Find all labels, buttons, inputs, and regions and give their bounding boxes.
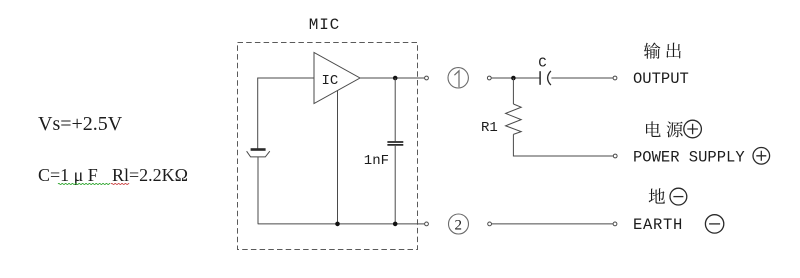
minus symbol after EARTH xyxy=(705,215,723,233)
label CJK di (earth) xyxy=(649,188,665,203)
label CJK chu (output) xyxy=(666,43,681,59)
wire R1 bottom to power supply terminal xyxy=(513,134,613,156)
capacitor 1nF plates xyxy=(387,142,403,145)
svg-text:R1: R1 xyxy=(481,120,498,136)
terminal pin2 outer xyxy=(488,222,492,226)
svg-text:EARTH: EARTH xyxy=(633,216,683,234)
junction output / 1nF xyxy=(393,76,398,81)
microphone element top plate xyxy=(251,148,266,151)
svg-text:1nF: 1nF xyxy=(364,153,389,169)
svg-text:Rl=2.2KΩ: Rl=2.2KΩ xyxy=(112,165,188,185)
microphone element cup plate xyxy=(247,151,270,157)
terminal earth xyxy=(613,222,617,226)
capacitor C curved plate xyxy=(548,71,551,85)
wire pin2 to earth terminal xyxy=(492,223,613,225)
wire left drop to mic element xyxy=(257,78,259,149)
svg-text:2: 2 xyxy=(455,218,463,234)
minus symbol after di xyxy=(670,188,687,205)
capacitor C left plate xyxy=(539,71,541,85)
svg-text:C=1 μ F: C=1 μ F xyxy=(38,165,98,185)
wire 1nF top lead xyxy=(394,78,396,141)
terminal output xyxy=(613,76,617,80)
terminal pin2 inner xyxy=(425,222,429,226)
svg-text:Vs=+2.5V: Vs=+2.5V xyxy=(38,113,123,135)
wire C to output terminal xyxy=(551,77,613,79)
junction R1 tap xyxy=(511,76,516,81)
resistor R1 xyxy=(506,104,522,134)
wire R1 top lead xyxy=(512,78,514,104)
wire op-amp bottom tap xyxy=(337,91,339,224)
wire pin1 to capacitor C xyxy=(491,77,540,79)
wire mic element to bottom rail xyxy=(257,157,259,224)
wire stub pin1 xyxy=(418,77,425,79)
wire 1nF bottom lead xyxy=(394,146,396,224)
wire stub pin2 xyxy=(418,223,425,225)
label CJK yuan (power) xyxy=(667,121,683,137)
plus symbol after POWER SUPPLY xyxy=(753,148,770,165)
svg-text:OUTPUT: OUTPUT xyxy=(633,70,689,88)
annotation C=1uF Rl=2.2Kohm xyxy=(38,165,188,185)
wire op-amp input xyxy=(258,77,314,79)
MIC module dashed box xyxy=(238,43,418,250)
terminal label 1 (circled) xyxy=(448,68,468,88)
op-amp IC xyxy=(314,53,360,104)
svg-text:MIC: MIC xyxy=(309,16,340,34)
svg-text:C: C xyxy=(538,55,546,71)
terminal pin1 inner xyxy=(425,76,429,80)
svg-text:IC: IC xyxy=(322,73,339,89)
plus symbol after dianyuan xyxy=(684,120,702,138)
junction 1nF bottom xyxy=(393,222,398,227)
svg-text:POWER SUPPLY: POWER SUPPLY xyxy=(633,148,745,166)
junction bottom tap xyxy=(335,222,340,227)
label CJK dian (power) xyxy=(646,121,661,137)
terminal power supply xyxy=(613,154,617,158)
wire op-amp output rail xyxy=(360,77,418,79)
terminal pin1 outer xyxy=(487,76,491,80)
label CJK shu (output) xyxy=(644,43,661,59)
spellcheck green squiggle xyxy=(58,183,110,184)
terminal label 2 (circled) xyxy=(449,214,469,234)
wire bottom rail xyxy=(258,223,418,225)
spellcheck red squiggle xyxy=(111,183,129,184)
